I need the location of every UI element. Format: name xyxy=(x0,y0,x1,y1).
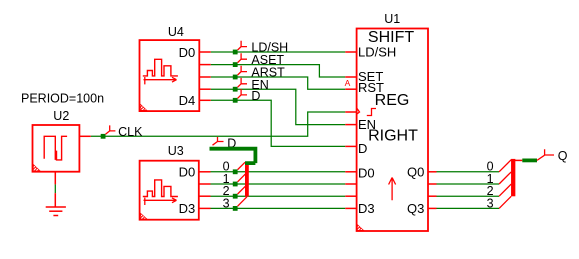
label flag D xyxy=(238,89,247,98)
svg-text:EN: EN xyxy=(358,117,376,132)
U1 pin stubs left xyxy=(345,52,356,208)
bus Q green segment xyxy=(522,158,537,162)
wire Q3 xyxy=(437,207,500,209)
clock source U2 xyxy=(33,125,80,172)
svg-text:D3: D3 xyxy=(179,201,196,216)
svg-text:D4: D4 xyxy=(179,93,196,108)
junction D xyxy=(233,98,238,103)
bus entry bit0 (left) xyxy=(238,162,245,169)
junction bit2 xyxy=(233,194,238,199)
junction bit3 xyxy=(233,206,238,211)
svg-text:CLK: CLK xyxy=(118,125,143,139)
wire data bit2 xyxy=(211,195,346,197)
bus entry Q0 xyxy=(499,160,511,172)
svg-text:D0: D0 xyxy=(179,45,196,60)
bus Q red vertical xyxy=(511,159,515,196)
bus entry Q1 xyxy=(499,172,511,184)
junction ARST xyxy=(233,75,238,80)
svg-text:U4: U4 xyxy=(168,25,184,39)
bus entry bit1 (left) xyxy=(238,173,247,182)
bus Q red tail to flag xyxy=(537,155,545,160)
wire data bit3 xyxy=(211,207,346,209)
svg-text:Q0: Q0 xyxy=(407,165,424,180)
U3 waveform icon xyxy=(143,180,178,197)
wire Q2 xyxy=(437,195,500,197)
wire data bit0 U3 to U1 xyxy=(211,171,346,173)
U2 clock waveform icon xyxy=(44,136,67,160)
svg-text:D3: D3 xyxy=(358,201,375,216)
wire Q0 xyxy=(437,171,500,173)
svg-text:LD/SH: LD/SH xyxy=(358,44,396,59)
shift register U1 xyxy=(357,29,428,232)
junction bit1 xyxy=(233,182,238,187)
U1 clock edge icon xyxy=(367,109,376,116)
wire ASET net xyxy=(211,65,345,77)
ground GND pin stub xyxy=(54,193,56,207)
U1 clock pin marker xyxy=(357,108,360,114)
bus entry bit2 (left) xyxy=(238,185,247,194)
svg-text:U2: U2 xyxy=(53,109,69,123)
U3 icon time axis arrow xyxy=(144,198,177,205)
svg-text:U1: U1 xyxy=(384,12,400,26)
svg-text:3: 3 xyxy=(487,196,494,210)
junction EN xyxy=(233,87,238,92)
label flag EN xyxy=(238,78,247,87)
junction CLK xyxy=(101,134,106,139)
wire CLK net xyxy=(91,112,345,136)
svg-text:Q3: Q3 xyxy=(407,201,424,216)
label flag D bus xyxy=(213,137,224,145)
U4 corner triangle xyxy=(140,104,146,110)
U1 up arrow xyxy=(389,178,396,201)
ground symbol xyxy=(46,207,66,216)
junction LD/SH xyxy=(233,50,238,55)
U3 corner triangle xyxy=(141,213,147,219)
bus entry Q3 xyxy=(499,196,511,208)
stimulus U4 xyxy=(140,40,200,111)
bus entry bit3 (left) xyxy=(238,197,247,206)
label flag ARST xyxy=(238,66,247,75)
svg-text:RST: RST xyxy=(358,80,384,95)
label flag CLK xyxy=(106,125,116,134)
U2 output pin stub xyxy=(79,135,90,137)
U2 corner triangle xyxy=(33,164,40,171)
U1 pin stubs right xyxy=(428,172,437,209)
U1 corner triangle xyxy=(357,225,363,231)
svg-text:D0: D0 xyxy=(358,165,375,180)
svg-text:D0: D0 xyxy=(179,165,196,180)
U4 pin stubs xyxy=(199,52,211,100)
U4 icon time axis arrow xyxy=(144,77,177,84)
wire LD/SH net xyxy=(211,51,345,53)
U2 ground pin stub xyxy=(54,172,56,185)
svg-text:PERIOD=100n: PERIOD=100n xyxy=(21,92,104,106)
bus entry Q2 xyxy=(499,184,511,196)
wire EN net xyxy=(211,89,345,124)
wire data bit1 xyxy=(211,183,346,185)
svg-text:Q: Q xyxy=(558,149,568,163)
wire D net xyxy=(211,100,345,146)
label flag ASET xyxy=(238,53,247,62)
bus Q red horizontal stub xyxy=(513,159,522,161)
svg-text:3: 3 xyxy=(223,196,230,210)
svg-text:U3: U3 xyxy=(168,144,184,158)
junction ASET xyxy=(233,62,238,67)
svg-text:A: A xyxy=(345,78,351,88)
bus D green segment xyxy=(210,149,256,163)
wire Q1 xyxy=(437,183,500,185)
bus D red segment xyxy=(245,163,249,197)
U3 pin stubs xyxy=(199,172,211,209)
label flag LD/SH xyxy=(238,41,247,50)
U4 waveform icon xyxy=(143,59,178,76)
svg-text:D: D xyxy=(251,89,260,103)
stimulus U3 xyxy=(140,161,199,220)
junction bit0 xyxy=(233,169,238,174)
wire U2 to ground xyxy=(54,184,56,193)
svg-text:D: D xyxy=(358,141,367,156)
label flag Q xyxy=(545,149,554,155)
wire ARST net xyxy=(211,77,345,89)
